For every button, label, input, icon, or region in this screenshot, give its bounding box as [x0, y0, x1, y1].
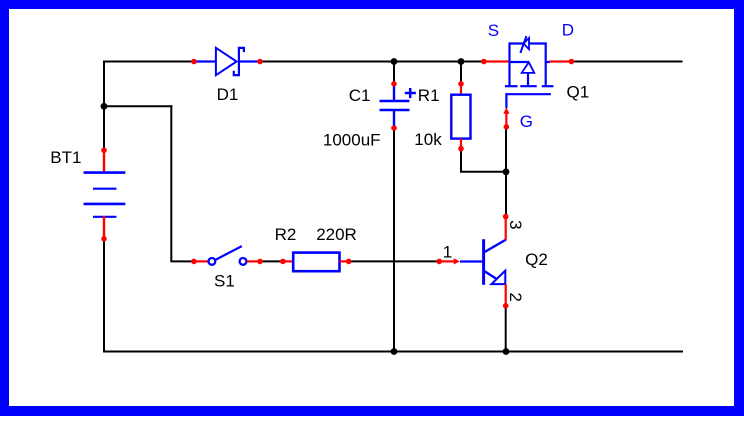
svg-text:D: D — [562, 20, 574, 39]
wire to S1 — [171, 260, 194, 262]
svg-text:Q1: Q1 — [567, 82, 590, 101]
svg-text:3: 3 — [506, 220, 525, 229]
svg-text:R2: R2 — [275, 225, 297, 244]
svg-text:10k: 10k — [414, 130, 442, 149]
wire S1 to R2 — [260, 260, 283, 262]
svg-text:220R: 220R — [316, 225, 357, 244]
wire bottom rail — [103, 351, 683, 353]
wire C1 bottom vertical — [393, 128, 395, 352]
wire branch horizontal from node — [104, 105, 172, 107]
svg-text:C1: C1 — [349, 86, 371, 105]
svg-text:1000uF: 1000uF — [323, 131, 381, 150]
wire top right horizontal — [570, 61, 683, 63]
node C1 bottom junction — [391, 348, 398, 355]
wire left vertical lower — [103, 238, 105, 353]
MOSFET Q1 — [481, 36, 574, 130]
capacitor C1 — [380, 81, 416, 131]
node Q2 emitter bottom junction — [503, 348, 510, 355]
diode D1 (zener) — [191, 48, 263, 75]
wire left vertical upper — [103, 61, 105, 152]
transistor Q2 — [436, 214, 508, 309]
wire C1 top stub — [393, 62, 395, 85]
svg-text:1: 1 — [443, 243, 452, 262]
node R1 top junction — [458, 58, 465, 65]
switch S1 — [191, 246, 263, 265]
svg-text:S1: S1 — [214, 272, 235, 291]
wire gate node vertical — [505, 127, 507, 173]
wire branch vertical to switch — [170, 105, 172, 262]
wire node to Q2 collector — [505, 171, 507, 217]
svg-text:D1: D1 — [217, 85, 239, 104]
wire R1 top stub — [460, 62, 462, 85]
wire R1 bottom L-shape — [461, 149, 506, 172]
wire Q2 emitter down — [505, 306, 507, 353]
wire R2 to Q2 base — [349, 260, 440, 262]
svg-text:2: 2 — [506, 292, 525, 301]
node gate junction — [503, 168, 510, 175]
svg-text:G: G — [520, 112, 533, 131]
svg-text:BT1: BT1 — [50, 148, 81, 167]
svg-text:Q2: Q2 — [525, 250, 548, 269]
wire top-left horizontal — [103, 61, 195, 63]
svg-text:S: S — [488, 21, 499, 40]
battery BT1 — [84, 148, 126, 242]
resistor R1 — [451, 81, 470, 151]
resistor R2 — [280, 253, 351, 272]
svg-text:R1: R1 — [418, 86, 440, 105]
wire top middle horizontal — [259, 61, 484, 63]
node C1 top junction — [391, 58, 398, 65]
node battery top junction — [101, 103, 108, 110]
